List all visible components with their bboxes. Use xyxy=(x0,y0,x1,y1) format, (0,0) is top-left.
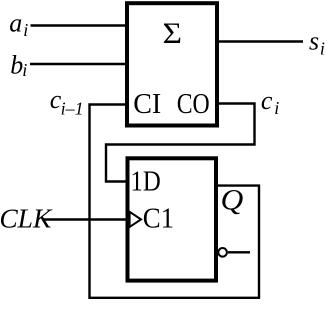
svg-text:s: s xyxy=(309,27,319,56)
svg-text:Q: Q xyxy=(221,184,244,217)
svg-text:a: a xyxy=(9,9,22,38)
svg-text:Σ: Σ xyxy=(163,17,183,50)
svg-text:i: i xyxy=(22,60,27,80)
svg-text:i: i xyxy=(23,20,28,40)
svg-text:CLK: CLK xyxy=(0,202,53,233)
svg-text:CI: CI xyxy=(133,89,161,120)
svg-text:1D: 1D xyxy=(131,167,161,198)
svg-text:C1: C1 xyxy=(143,203,174,234)
svg-text:i: i xyxy=(274,98,279,118)
svg-text:c: c xyxy=(261,86,273,115)
svg-text:b: b xyxy=(10,50,23,79)
svg-text:i: i xyxy=(320,38,325,58)
svg-text:CO: CO xyxy=(177,89,210,120)
svg-text:i–1: i–1 xyxy=(61,98,84,118)
